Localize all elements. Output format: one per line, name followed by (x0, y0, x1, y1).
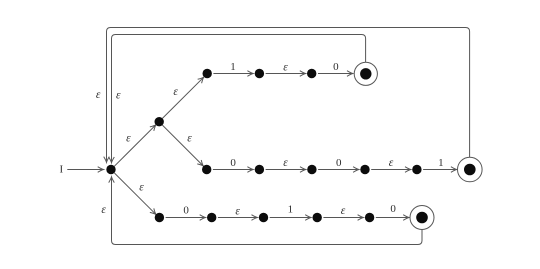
svg-text:1: 1 (288, 204, 294, 216)
state M6 accepting (458, 157, 483, 182)
state T4 accepting (354, 62, 377, 85)
svg-text:ε: ε (187, 133, 192, 145)
svg-text:1: 1 (230, 61, 236, 73)
wire loop from final state T4 back to start (inner top loop) (112, 35, 366, 163)
state B5 (365, 213, 374, 222)
wire F to T1 (epsilon) (162, 77, 203, 118)
wire T3 to T4 (0) (318, 73, 353, 75)
wire T2 to T3 (epsilon) (266, 73, 306, 75)
state B2 (207, 213, 216, 222)
svg-text:0: 0 (183, 205, 189, 217)
wire B5 to B6 (0) (376, 217, 409, 219)
svg-text:0: 0 (230, 157, 236, 169)
state B6 accepting (410, 206, 434, 230)
svg-text:ε: ε (341, 205, 346, 217)
state T1 (203, 69, 212, 78)
wire T1 to T2 (1) (213, 73, 253, 75)
state M3 (307, 165, 316, 174)
state M1 (202, 165, 211, 174)
svg-text:0: 0 (333, 61, 339, 73)
svg-text:I: I (59, 164, 63, 176)
wire M2 to M3 (epsilon) (266, 169, 306, 171)
wire loop from final state M6 back to start (outer top loop) (107, 28, 470, 163)
svg-text:ε: ε (173, 86, 178, 98)
state M5 (412, 165, 421, 174)
state F (fork node) (155, 117, 164, 126)
state M2 (255, 165, 264, 174)
svg-text:0: 0 (390, 203, 396, 215)
svg-text:ε: ε (126, 133, 131, 145)
wire B4 to B5 (epsilon) (323, 217, 363, 219)
wire M1 to M2 (0) (213, 169, 253, 171)
wire M4 to M5 (epsilon) (371, 169, 410, 171)
state B1 (155, 213, 164, 222)
wire B2 to B3 (epsilon) (218, 217, 257, 219)
wire loop from final state B6 back to start (bottom loop) (112, 177, 423, 245)
state T3 (307, 69, 316, 78)
svg-text:ε: ε (389, 157, 394, 169)
wire S to B1 (epsilon) (114, 173, 155, 214)
svg-text:ε: ε (283, 62, 288, 74)
wire M5 to M6 (1) (423, 169, 456, 171)
wire S to fork F (epsilon) (114, 125, 155, 166)
start arrow I (67, 169, 103, 171)
svg-text:ε: ε (283, 157, 288, 169)
svg-text:1: 1 (438, 157, 444, 169)
svg-text:ε: ε (139, 182, 144, 194)
wire B1 to B2 (0) (166, 217, 206, 219)
state T2 (255, 69, 264, 78)
svg-text:ε: ε (96, 89, 101, 101)
state B3 (259, 213, 268, 222)
wire F to M1 (epsilon) (162, 125, 203, 166)
wire M3 to M4 (0) (318, 169, 359, 171)
svg-text:0: 0 (336, 157, 342, 169)
state B4 (313, 213, 322, 222)
svg-text:ε: ε (101, 204, 106, 216)
wire B3 to B4 (1) (270, 217, 311, 219)
state S (start node) (106, 165, 115, 174)
svg-text:ε: ε (116, 90, 121, 102)
state M4 (360, 165, 369, 174)
svg-text:ε: ε (235, 205, 240, 217)
